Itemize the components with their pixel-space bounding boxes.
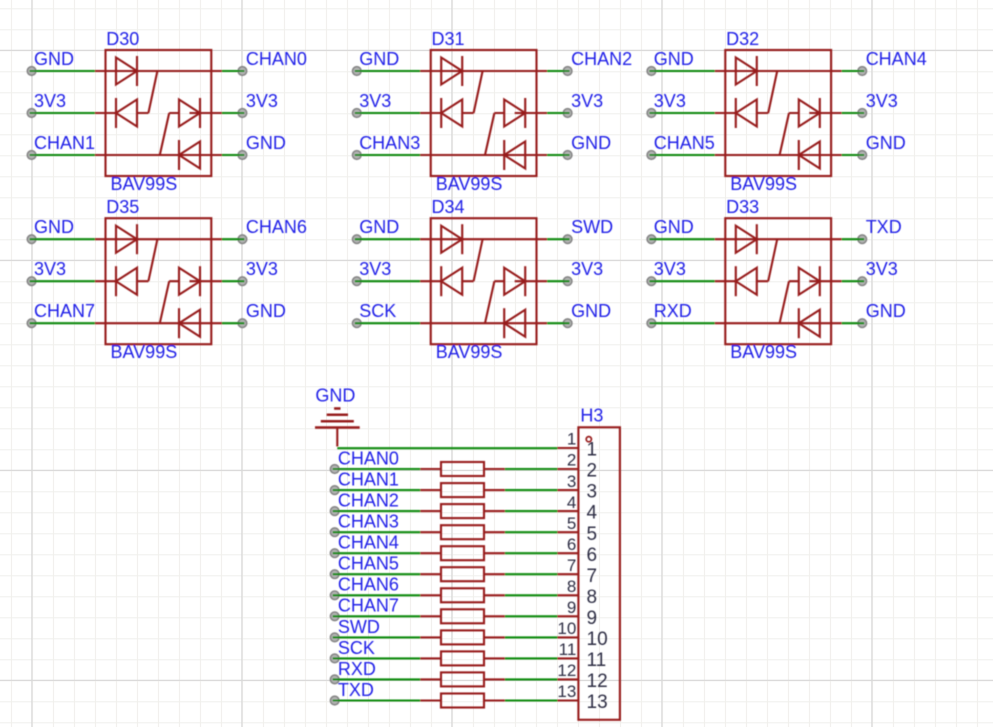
svg-text:D34: D34 [432, 197, 465, 217]
svg-text:GND: GND [246, 133, 286, 153]
svg-text:3V3: 3V3 [571, 91, 603, 111]
net label CHAN4 [338, 533, 399, 553]
H3 pin names (inside box) [587, 440, 608, 713]
svg-text:D32: D32 [726, 29, 759, 49]
net label GND [246, 301, 286, 321]
svg-text:3V3: 3V3 [34, 259, 66, 279]
svg-text:TXD: TXD [338, 680, 374, 700]
diode array D35 (BAV99S) [95, 218, 222, 344]
svg-text:12: 12 [587, 671, 608, 692]
resistor (CHAN2 series, H3 pin 4) [420, 504, 505, 518]
svg-text:H3: H3 [580, 406, 603, 426]
wire 3V3 to D31 right pin [547, 109, 572, 118]
svg-text:7: 7 [567, 556, 576, 575]
wire 3V3 to D34 right pin [547, 277, 572, 286]
wire GND to D35 left pin 1 [27, 235, 95, 244]
net label GND [34, 49, 74, 69]
resistor (TXD series, H3 pin 13) [420, 694, 505, 708]
svg-text:6: 6 [567, 535, 576, 554]
net label RXD [654, 301, 692, 321]
svg-text:GND: GND [866, 133, 906, 153]
net label 3V3 [246, 91, 278, 111]
net label 3V3 [866, 91, 898, 111]
svg-text:11: 11 [559, 640, 577, 659]
svg-text:7: 7 [587, 566, 598, 587]
svg-text:1: 1 [567, 430, 576, 449]
wire CHAN7 to resistor (H3 pin 9 row) [330, 612, 420, 621]
svg-text:5: 5 [587, 524, 598, 545]
net label GND [34, 217, 74, 237]
net label CHAN4 [866, 49, 927, 69]
value label BAV99S of D32 [730, 174, 797, 194]
svg-text:CHAN7: CHAN7 [338, 596, 399, 616]
svg-text:12: 12 [557, 661, 576, 680]
svg-text:9: 9 [587, 608, 598, 629]
net label SWD [338, 617, 380, 637]
wire resistor to H3 pin 2 [505, 468, 558, 470]
svg-text:10: 10 [587, 629, 608, 650]
net label CHAN6 [338, 575, 399, 595]
value label BAV99S of D33 [730, 342, 797, 362]
wire RXD to resistor (H3 pin 12 row) [330, 675, 420, 684]
wire 3V3 to D35 left pin 2 [27, 277, 95, 286]
diode array D33 (BAV99S) [715, 218, 842, 344]
svg-text:CHAN0: CHAN0 [246, 49, 307, 69]
svg-text:CHAN5: CHAN5 [654, 133, 715, 153]
wire GND to D33 left pin 1 [647, 235, 715, 244]
wire CHAN2 to D31 right pin [547, 67, 572, 76]
wire CHAN6 to resistor (H3 pin 8 row) [330, 591, 420, 600]
svg-text:BAV99S: BAV99S [436, 174, 503, 194]
net label CHAN5 [654, 133, 715, 153]
wire CHAN4 to resistor (H3 pin 6 row) [330, 549, 420, 558]
ground [315, 409, 360, 447]
svg-text:GND: GND [359, 217, 399, 237]
svg-text:4: 4 [567, 493, 576, 512]
net label TXD [338, 680, 374, 700]
svg-text:8: 8 [567, 577, 576, 596]
wire 3V3 to D34 left pin 2 [353, 277, 421, 286]
svg-text:4: 4 [587, 503, 598, 524]
diode array D31 (BAV99S) [420, 50, 547, 176]
svg-text:GND: GND [34, 217, 74, 237]
refdes label D32 [726, 29, 759, 49]
refdes label H3 [580, 406, 603, 426]
refdes label D31 [432, 29, 465, 49]
svg-text:RXD: RXD [338, 659, 376, 679]
svg-text:GND: GND [866, 301, 906, 321]
wire 3V3 to D30 right pin [222, 109, 247, 118]
wire resistor to H3 pin 3 [505, 489, 558, 491]
refdes label D30 [106, 29, 139, 49]
resistor (CHAN1 series, H3 pin 3) [420, 483, 505, 497]
svg-text:CHAN6: CHAN6 [338, 575, 399, 595]
svg-text:SWD: SWD [571, 217, 613, 237]
svg-text:TXD: TXD [866, 217, 902, 237]
wire RXD to D33 left pin 3 [647, 319, 715, 328]
diode array D32 (BAV99S) [715, 50, 842, 176]
wire TXD to resistor (H3 pin 13 row) [330, 696, 420, 705]
svg-text:SWD: SWD [338, 617, 380, 637]
refdes label D33 [726, 197, 759, 217]
net label SCK [338, 638, 375, 658]
wire GND to H3 pin 1 [337, 447, 557, 449]
wire CHAN5 to resistor (H3 pin 7 row) [330, 570, 420, 579]
net label CHAN1 [338, 470, 399, 490]
wire CHAN0 to D30 right pin [222, 67, 247, 76]
wire 3V3 to D32 left pin 2 [647, 109, 715, 118]
svg-text:9: 9 [567, 598, 576, 617]
svg-text:CHAN4: CHAN4 [866, 49, 927, 69]
svg-text:CHAN1: CHAN1 [34, 133, 95, 153]
svg-text:3V3: 3V3 [359, 91, 391, 111]
wire GND to D34 left pin 1 [353, 235, 421, 244]
wire resistor to H3 pin 10 [505, 636, 558, 638]
value label BAV99S of D35 [111, 342, 178, 362]
resistor (SWD series, H3 pin 10) [420, 630, 505, 644]
wire TXD to D33 right pin [842, 235, 867, 244]
net label 3V3 [571, 259, 603, 279]
net label GND (ground flag) [315, 385, 355, 405]
wire resistor to H3 pin 13 [505, 699, 558, 701]
wire resistor to H3 pin 8 [505, 594, 558, 596]
svg-text:BAV99S: BAV99S [436, 342, 503, 362]
wire 3V3 to D33 right pin [842, 277, 867, 286]
net label GND [866, 301, 906, 321]
svg-text:GND: GND [571, 301, 611, 321]
wire GND to D34 right pin [547, 319, 572, 328]
svg-text:GND: GND [359, 49, 399, 69]
svg-text:D31: D31 [432, 29, 465, 49]
net label GND [654, 217, 694, 237]
svg-text:SCK: SCK [359, 301, 396, 321]
net label 3V3 [654, 91, 686, 111]
svg-text:GND: GND [34, 49, 74, 69]
resistor (CHAN6 series, H3 pin 8) [420, 588, 505, 602]
refdes label D34 [432, 197, 465, 217]
net label TXD [866, 217, 902, 237]
wire 3V3 to D32 right pin [842, 109, 867, 118]
refdes label D35 [106, 197, 139, 217]
svg-text:CHAN1: CHAN1 [338, 470, 399, 490]
net label CHAN7 [34, 301, 95, 321]
wire CHAN6 to D35 right pin [222, 235, 247, 244]
net label CHAN3 [338, 512, 399, 532]
net label 3V3 [246, 259, 278, 279]
net label CHAN5 [338, 554, 399, 574]
svg-text:GND: GND [654, 49, 694, 69]
svg-text:BAV99S: BAV99S [111, 342, 178, 362]
wire GND to D31 right pin [547, 151, 572, 160]
wire resistor to H3 pin 6 [505, 552, 558, 554]
svg-text:13: 13 [587, 692, 608, 713]
net label 3V3 [359, 259, 391, 279]
resistor (SCK series, H3 pin 11) [420, 651, 505, 665]
net label CHAN7 [338, 596, 399, 616]
H3 pin numbers (outside, left of box) [557, 430, 576, 702]
net label GND [654, 49, 694, 69]
svg-text:CHAN3: CHAN3 [359, 133, 420, 153]
net label SCK [359, 301, 396, 321]
net label 3V3 [571, 91, 603, 111]
svg-text:GND: GND [571, 133, 611, 153]
wire CHAN1 to D30 left pin 3 [27, 151, 95, 160]
net label CHAN3 [359, 133, 420, 153]
net label CHAN1 [34, 133, 95, 153]
svg-text:3V3: 3V3 [571, 259, 603, 279]
svg-text:10: 10 [557, 619, 576, 638]
wire GND to D33 right pin [842, 319, 867, 328]
net label GND [359, 217, 399, 237]
wire CHAN5 to D32 left pin 3 [647, 151, 715, 160]
resistor (CHAN7 series, H3 pin 9) [420, 609, 505, 623]
wire CHAN4 to D32 right pin [842, 67, 867, 76]
value label BAV99S of D31 [436, 174, 503, 194]
wire resistor to H3 pin 9 [505, 615, 558, 617]
net label RXD [338, 659, 376, 679]
wire GND to D30 left pin 1 [27, 67, 95, 76]
svg-text:BAV99S: BAV99S [730, 174, 797, 194]
svg-text:D30: D30 [106, 29, 139, 49]
header connector H3 [557, 427, 620, 720]
net label 3V3 [34, 91, 66, 111]
svg-text:GND: GND [654, 217, 694, 237]
net label CHAN2 [571, 49, 632, 69]
wire 3V3 to D35 right pin [222, 277, 247, 286]
svg-text:3V3: 3V3 [866, 259, 898, 279]
net label 3V3 [359, 91, 391, 111]
svg-text:8: 8 [587, 587, 598, 608]
net label GND [571, 133, 611, 153]
resistor (RXD series, H3 pin 12) [420, 672, 505, 686]
svg-text:3V3: 3V3 [34, 91, 66, 111]
wire CHAN3 to D31 left pin 3 [353, 151, 421, 160]
svg-text:CHAN7: CHAN7 [34, 301, 95, 321]
wire 3V3 to D31 left pin 2 [353, 109, 421, 118]
svg-text:GND: GND [246, 301, 286, 321]
svg-text:CHAN4: CHAN4 [338, 533, 399, 553]
svg-text:CHAN0: CHAN0 [338, 448, 399, 468]
svg-text:11: 11 [587, 650, 607, 671]
svg-text:2: 2 [587, 461, 598, 482]
wire 3V3 to D30 left pin 2 [27, 109, 95, 118]
resistor (CHAN3 series, H3 pin 5) [420, 525, 505, 539]
wire 3V3 to D33 left pin 2 [647, 277, 715, 286]
diode array D30 (BAV99S) [95, 50, 222, 176]
wire CHAN3 to resistor (H3 pin 5 row) [330, 528, 420, 537]
svg-text:BAV99S: BAV99S [730, 342, 797, 362]
svg-text:D33: D33 [726, 197, 759, 217]
net label CHAN0 [338, 448, 399, 468]
svg-text:CHAN2: CHAN2 [571, 49, 632, 69]
svg-text:3V3: 3V3 [654, 259, 686, 279]
wire CHAN0 to resistor (H3 pin 2 row) [330, 465, 420, 474]
wire resistor to H3 pin 7 [505, 573, 558, 575]
svg-text:CHAN5: CHAN5 [338, 554, 399, 574]
wire resistor to H3 pin 11 [505, 657, 558, 659]
svg-text:3V3: 3V3 [246, 259, 278, 279]
svg-text:3V3: 3V3 [359, 259, 391, 279]
svg-text:2: 2 [567, 451, 576, 470]
svg-text:3: 3 [567, 472, 576, 491]
svg-text:3V3: 3V3 [246, 91, 278, 111]
value label BAV99S of D30 [111, 174, 178, 194]
wire GND to D31 left pin 1 [353, 67, 421, 76]
svg-text:3: 3 [587, 482, 598, 503]
wire GND to D32 right pin [842, 151, 867, 160]
wire SCK to D34 left pin 3 [353, 319, 421, 328]
net label 3V3 [866, 259, 898, 279]
wire CHAN1 to resistor (H3 pin 3 row) [330, 486, 420, 495]
svg-text:GND: GND [315, 385, 355, 405]
net label 3V3 [34, 259, 66, 279]
svg-text:13: 13 [557, 682, 576, 701]
svg-text:CHAN3: CHAN3 [338, 512, 399, 532]
wire resistor to H3 pin 4 [505, 510, 558, 512]
net label GND [571, 301, 611, 321]
svg-text:3V3: 3V3 [866, 91, 898, 111]
svg-text:3V3: 3V3 [654, 91, 686, 111]
wire GND to D35 right pin [222, 319, 247, 328]
net label CHAN6 [246, 217, 307, 237]
resistor (CHAN5 series, H3 pin 7) [420, 567, 505, 581]
wire SWD to resistor (H3 pin 10 row) [330, 633, 420, 642]
resistor (CHAN0 series, H3 pin 2) [420, 462, 505, 476]
net label GND [866, 133, 906, 153]
net label SWD [571, 217, 613, 237]
svg-text:6: 6 [587, 545, 598, 566]
net label GND [359, 49, 399, 69]
svg-text:D35: D35 [106, 197, 139, 217]
svg-text:RXD: RXD [654, 301, 692, 321]
wire resistor to H3 pin 5 [505, 531, 558, 533]
wire GND to D30 right pin [222, 151, 247, 160]
svg-text:CHAN6: CHAN6 [246, 217, 307, 237]
resistor (CHAN4 series, H3 pin 6) [420, 546, 505, 560]
svg-text:1: 1 [587, 440, 598, 461]
svg-text:5: 5 [567, 514, 576, 533]
net label 3V3 [654, 259, 686, 279]
net label CHAN0 [246, 49, 307, 69]
wire resistor to H3 pin 12 [505, 678, 558, 680]
wire SCK to resistor (H3 pin 11 row) [330, 654, 420, 663]
wire CHAN7 to D35 left pin 3 [27, 319, 95, 328]
net label GND [246, 133, 286, 153]
value label BAV99S of D34 [436, 342, 503, 362]
svg-text:SCK: SCK [338, 638, 375, 658]
svg-text:CHAN2: CHAN2 [338, 491, 399, 511]
diode array D34 (BAV99S) [420, 218, 547, 344]
wire CHAN2 to resistor (H3 pin 4 row) [330, 507, 420, 516]
net label CHAN2 [338, 491, 399, 511]
svg-text:BAV99S: BAV99S [111, 174, 178, 194]
wire SWD to D34 right pin [547, 235, 572, 244]
wire GND to D32 left pin 1 [647, 67, 715, 76]
